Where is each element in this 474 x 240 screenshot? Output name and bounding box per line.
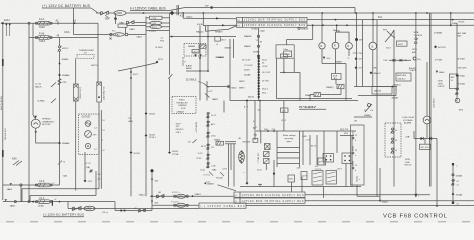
node (-)125V DC BATTERY BUS label — [43, 213, 84, 217]
transistor 4H17 — [383, 29, 421, 62]
wire x377 — [376, 20, 378, 197]
terminal box AB — [118, 24, 146, 31]
nest wire N3 y195.5 — [30, 152, 96, 202]
title VCB F68 CONTROL — [383, 213, 448, 219]
bus y131 — [256, 129, 356, 132]
terminal dot column x259 — [239, 57, 271, 98]
bus B2 y200 — [3, 199, 115, 207]
wire x260 ticks — [253, 101, 260, 137]
contact CL/52 — [35, 83, 56, 89]
node (+)125VDC CABEL BUS label — [130, 6, 185, 10]
wire corner x98 — [97, 23, 99, 82]
node marks below bus F — [244, 100, 288, 131]
lamp L1 — [319, 13, 325, 64]
node 56Q — [323, 57, 331, 61]
bus tripping supply y19.6 — [307, 16, 474, 21]
relay mechanism box — [351, 106, 368, 185]
wire x394 — [393, 30, 395, 187]
wire y86.5 43Y — [207, 56, 238, 113]
coil 52CC — [146, 25, 170, 29]
fuse F/A — [110, 27, 147, 39]
text loss of AC voltage alarm — [402, 116, 415, 125]
wire x99 — [97, 81, 99, 84]
motor spring charging — [31, 115, 59, 143]
relay NB3Y — [396, 67, 417, 81]
wire y39 MV — [156, 36, 237, 59]
node 56344 — [145, 112, 156, 115]
cable 1200/4A13 double line — [430, 13, 436, 187]
node *4A2 — [63, 174, 68, 177]
bus label (-)BKR TRIPPING — [234, 198, 305, 203]
cable A13 — [177, 5, 185, 18]
bus closing supply y25.3 — [307, 22, 474, 26]
wire H1 y186.5 — [240, 160, 361, 187]
wire x200 — [199, 25, 201, 100]
junction dots on bus A — [143, 11, 452, 15]
contact 52/CS — [364, 104, 374, 113]
wire M1 y196.2 — [139, 193, 235, 197]
relay CRD2 — [84, 206, 108, 214]
wire UCA — [64, 23, 112, 34]
wire diode row — [406, 131, 438, 140]
wire x337 terminal block — [323, 131, 354, 164]
node 56P label — [105, 13, 117, 24]
node X4A93 — [195, 193, 202, 196]
node 5A4 — [333, 29, 338, 32]
node A3 — [73, 20, 77, 25]
border tick marks bottom — [6, 221, 470, 223]
nest wire N2 y190.5 — [22, 103, 101, 202]
contact 52* — [188, 140, 197, 144]
wire x233 — [233, 39, 235, 58]
bus closing return y194.7 — [305, 194, 430, 196]
wire x170 — [168, 31, 172, 151]
node AL 2M/7bW — [239, 137, 258, 144]
relay C/52 — [146, 16, 170, 20]
resistor WBA3-2 — [214, 139, 224, 146]
junction node — [28, 22, 30, 201]
bus main battery bus B1 y23.2 — [1, 19, 99, 24]
contact 52 SW/LS — [186, 79, 219, 101]
contact column x208 — [196, 113, 217, 169]
wire y95.5 — [358, 87, 399, 100]
node 4BA3O — [204, 182, 236, 191]
fuse F1-3 — [35, 198, 52, 208]
node +100Y/A304 — [195, 121, 198, 133]
relay WC 26.0 — [420, 139, 431, 150]
wire y117 — [354, 114, 372, 122]
wire x33 — [32, 23, 34, 115]
relay box CB — [276, 45, 352, 99]
node A2 — [56, 20, 60, 25]
node OWAA4 — [58, 142, 70, 146]
relay stack verticals — [146, 13, 170, 31]
wire x247 — [244, 100, 249, 185]
bus label (-)125VDC CABEL BUS — [199, 203, 246, 208]
relay CRD — [114, 11, 126, 16]
coil 52X — [146, 21, 170, 25]
terminal blocks — [6, 24, 11, 36]
node O2 F — [182, 58, 187, 66]
terminal box AB2 — [137, 35, 143, 38]
alarm dashed box — [385, 123, 401, 157]
resistor WBA2Q — [326, 80, 344, 95]
outlet box — [79, 114, 105, 155]
wire x352 — [351, 136, 353, 187]
wire y196 WAA3Z — [357, 168, 389, 204]
bus label (-)BKR CLOSING — [234, 192, 305, 197]
wire x211 — [207, 25, 209, 72]
wire fuse row2 — [29, 37, 98, 39]
wire x75.7 — [75, 58, 77, 190]
wire y71 — [186, 64, 208, 71]
component cluster above closing bus — [288, 164, 346, 199]
wire x255 — [254, 101, 256, 141]
relay A3P14 — [435, 58, 458, 88]
node 56344 T3T3B — [168, 151, 179, 156]
relay 4/L/R — [332, 74, 342, 80]
resistor block T84 — [74, 84, 83, 101]
wire x152 58X — [150, 169, 159, 211]
wire x146 long — [145, 31, 147, 196]
node YYYA3 30Y — [257, 152, 260, 163]
wire x230 — [229, 39, 231, 101]
fuse F1-B — [35, 33, 52, 44]
contact stack WAA — [244, 28, 266, 101]
resistor zigzag — [239, 150, 245, 164]
wire x131 — [118, 63, 157, 197]
wire — [91, 8, 101, 13]
node 56TA — [404, 158, 412, 166]
node 2 PG-1 — [146, 31, 170, 33]
wire right column — [450, 13, 467, 111]
text motor voltage — [283, 134, 296, 143]
bus F y100.5 — [230, 100, 358, 102]
fuse F1-5 — [35, 181, 55, 187]
nest wire N1 y185 — [3, 183, 60, 201]
contact CL/MAC — [37, 99, 56, 104]
dashed box field installed jumper — [172, 97, 196, 114]
bus C y7.5 — [185, 5, 355, 13]
contact GB — [156, 192, 165, 198]
component cluster x200-232 upper bottom — [200, 169, 228, 184]
wire to closing box — [196, 12, 237, 33]
bus label 125VDC BKR TRIPPING SUPPLY BUS — [237, 17, 308, 21]
resistor block CB2 — [91, 65, 105, 102]
wire x59 — [58, 38, 70, 186]
lamp L3 — [346, 43, 353, 60]
node 49 — [57, 35, 60, 38]
node To ALB21x — [299, 105, 326, 109]
node OWAA3 — [58, 74, 70, 77]
node 26 AD/L — [129, 118, 134, 123]
dashed box SAMA3 — [184, 44, 206, 58]
bus G y205.6 — [246, 205, 474, 207]
bus label 125VDC BKR CLOSING SUPPLY BUS — [237, 23, 308, 27]
fuse F1-A — [35, 18, 52, 29]
wire to tripping box — [182, 12, 236, 19]
wire CRD2 y208.5 — [68, 202, 199, 209]
resistor WBA3 — [305, 93, 341, 101]
wire y63.5 — [322, 61, 346, 101]
wire terminal pair — [225, 142, 236, 187]
contact cluster C2 — [302, 131, 326, 165]
relay CRC — [172, 192, 188, 198]
contact 56P-2 — [120, 21, 147, 26]
relay 53Y3 — [280, 54, 300, 101]
capacitor block — [261, 131, 270, 170]
wire x437 — [436, 139, 438, 207]
lamp L2 — [332, 24, 349, 73]
node 56T3H — [130, 151, 141, 155]
contact 69-2 — [72, 206, 82, 210]
bus tripping return y200.7 — [305, 200, 474, 202]
node (+)125V DC BATTERY BUS label — [42, 4, 91, 23]
alarm bell — [423, 62, 431, 139]
wire 56T column — [353, 13, 364, 87]
meter S — [369, 13, 377, 87]
relay CRC2 — [152, 202, 199, 208]
node 04A94 — [59, 58, 70, 65]
contact 42M — [12, 159, 22, 166]
wire y86.5 — [354, 84, 401, 94]
wire left margin — [0, 23, 7, 200]
node 56344 PCGLY — [145, 134, 157, 139]
wire bottom right column — [451, 163, 463, 205]
node NB — [370, 67, 382, 75]
node 54X3 — [156, 59, 164, 64]
bus (+)125VDC positive bus A y13 — [126, 12, 474, 14]
node O3A1B — [287, 24, 314, 44]
wire 56C7A column — [412, 13, 422, 198]
contact 69 — [100, 11, 114, 15]
thermostat 23 — [77, 49, 94, 59]
text 750V block — [176, 123, 184, 133]
resistor 27M — [58, 79, 67, 86]
wire battery return — [115, 202, 152, 213]
node WBA3 — [434, 31, 446, 49]
node C2 PG2 — [160, 38, 165, 43]
ladder wires — [277, 131, 300, 167]
